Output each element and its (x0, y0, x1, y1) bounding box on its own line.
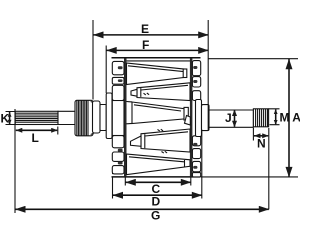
front shaft splined section (15, 111, 58, 124)
claw pole 5 (points right) (127, 154, 191, 175)
claw pole 2 (points left) (131, 83, 190, 101)
dimension N (253, 128, 268, 209)
rear shaft (209, 110, 253, 127)
dimension M (269, 109, 290, 125)
dimension D (113, 131, 202, 209)
dimension C (125, 177, 191, 196)
rotor pole body outline (112, 58, 201, 177)
left pole finger tab blocks (112, 61, 124, 174)
svg-text:D: D (152, 195, 161, 209)
right pole finger tab blocks (192, 61, 200, 177)
rear thread section (253, 109, 268, 127)
claw pole 3 (points right, centre) (127, 102, 191, 126)
dimension J (225, 110, 235, 127)
claw pole 1 (points right) (127, 63, 187, 85)
svg-text:J: J (225, 111, 232, 125)
washer behind bearing (93, 101, 101, 133)
rear collar (202, 105, 210, 131)
dimension K (1, 112, 16, 126)
svg-text:E: E (141, 22, 149, 36)
dimension L (16, 127, 58, 146)
svg-text:A: A (292, 111, 300, 125)
left pole ring inner shaded strip (124, 58, 127, 176)
svg-text:G: G (151, 209, 160, 223)
right pole ring inner shaded strip (190, 58, 193, 176)
svg-text:K: K (1, 112, 10, 126)
dimension A (rotor diameter) (201, 59, 301, 177)
claw pole 4 (points left) (131, 129, 191, 153)
dimension E (93, 20, 208, 131)
front bearing knurled collar (75, 100, 101, 136)
left pole hub block (112, 101, 124, 136)
svg-text:L: L (32, 131, 39, 145)
dimension G (15, 109, 269, 223)
rear slip-ring support block (196, 100, 202, 137)
svg-text:M: M (280, 111, 290, 125)
svg-text:N: N (257, 137, 266, 151)
front shaft plain section (58, 111, 75, 124)
front hub collar (106, 93, 112, 139)
svg-text:F: F (142, 38, 149, 52)
dimension F (106, 38, 208, 93)
front spacer (100, 105, 106, 131)
